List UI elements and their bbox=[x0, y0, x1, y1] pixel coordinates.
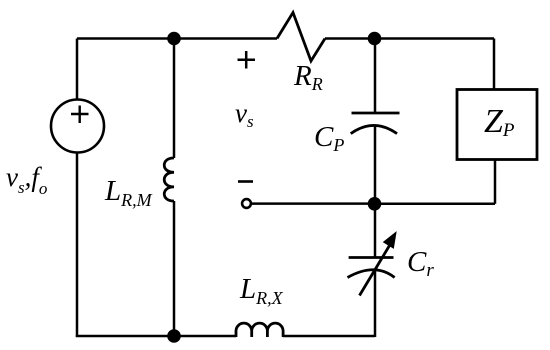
wire branch-2 vertical bottom bbox=[173, 201, 176, 336]
wire middle junction to right loop bbox=[374, 203, 495, 206]
wire left vertical above source bbox=[76, 39, 79, 100]
svg-text:CP: CP bbox=[314, 121, 344, 155]
wire right loop vertical upper bbox=[493, 39, 496, 90]
wire terminal to middle junction bbox=[252, 202, 374, 205]
svg-text:vs,fo: vs,fo bbox=[6, 162, 47, 198]
variable capacitor C2 (C_r) top plate bbox=[349, 256, 394, 259]
wire C_r branch lower bbox=[374, 270, 377, 337]
voltage source V1 circle bbox=[51, 100, 104, 153]
wire left vertical below source bbox=[76, 153, 79, 338]
resistor R1 (R_R zigzag) bbox=[277, 13, 325, 62]
label plus sign of v_s bbox=[238, 51, 256, 69]
capacitor C1 (C_P) top plate bbox=[352, 112, 400, 115]
svg-text:vs: vs bbox=[235, 98, 254, 131]
wire C_P branch lower bbox=[374, 126, 377, 204]
voltage source V1 plus sign bbox=[71, 106, 89, 124]
wire C_P branch upper bbox=[374, 39, 377, 114]
svg-text:RR: RR bbox=[293, 60, 323, 94]
node junction dot top at L_R,M branch bbox=[167, 32, 181, 46]
impedance Z_P box bbox=[457, 90, 537, 160]
svg-text:ZP: ZP bbox=[484, 103, 515, 141]
svg-text:LR,M: LR,M bbox=[104, 175, 153, 210]
node junction dot middle bbox=[368, 197, 382, 211]
variable capacitor C2 (C_r) curved bottom plate bbox=[348, 270, 395, 278]
node junction dot bottom bbox=[167, 329, 181, 343]
wire C_r branch upper bbox=[374, 204, 377, 258]
wire top-left segment bbox=[77, 37, 277, 40]
svg-text:LR,X: LR,X bbox=[239, 273, 284, 308]
variable capacitor C2 (C_r) arrowhead bbox=[384, 232, 396, 248]
inductor L2 (L_R,X humps) bbox=[236, 323, 283, 337]
wire top-right segment bbox=[325, 37, 494, 40]
wire branch-2 vertical top bbox=[173, 39, 176, 159]
capacitor C1 (C_P) curved bottom plate bbox=[351, 125, 397, 133]
open terminal circle bbox=[242, 199, 251, 208]
wire right loop vertical lower bbox=[494, 160, 497, 204]
label minus sign of v_s bbox=[238, 180, 253, 183]
node junction dot top at C_P branch bbox=[368, 32, 382, 46]
variable capacitor C2 (C_r) arrow shaft bbox=[360, 243, 392, 296]
svg-text:Cr: Cr bbox=[407, 246, 434, 281]
wire bottom-right segment bbox=[283, 335, 375, 338]
inductor L1 (L_R,M loops) bbox=[164, 158, 174, 201]
wire bottom-left segment bbox=[76, 335, 236, 338]
